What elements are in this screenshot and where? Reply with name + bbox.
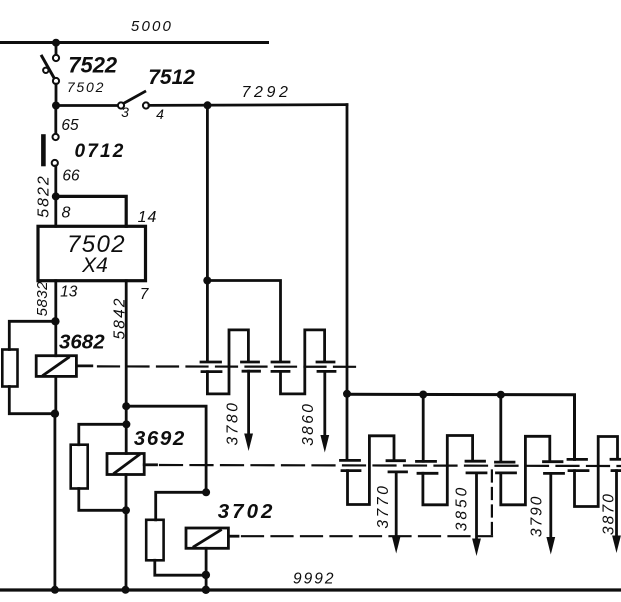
contact 3870 second upper tick — [611, 458, 621, 461]
node junction below 3702 — [202, 571, 210, 579]
wire 7522 to node — [55, 84, 58, 105]
wire branch to 3702 column — [126, 406, 206, 492]
node junction pin8/14 — [52, 192, 60, 200]
contact 3860 lower tick — [272, 370, 289, 373]
contact 3780 second upper tick — [242, 361, 259, 364]
arrow 3770 — [395, 472, 398, 538]
svg-text:5832: 5832 — [34, 281, 51, 317]
svg-text:5000: 5000 — [131, 18, 173, 35]
contact 3790 lower tick — [497, 471, 516, 474]
wire left column to bottom rail — [54, 414, 57, 590]
wire resistor to bottom node — [9, 387, 55, 414]
wire pin 13 down — [54, 281, 57, 356]
wire top supply rail 5000 — [0, 41, 268, 44]
button 0712 actuator bar — [41, 137, 46, 165]
svg-text:0712: 0712 — [74, 141, 125, 162]
mech stub 3702 — [228, 535, 238, 538]
contact 3860 upper tick — [272, 361, 289, 364]
contact 3850 lower tick — [418, 472, 437, 475]
svg-text:3682: 3682 — [59, 331, 105, 354]
svg-text:66: 66 — [62, 168, 80, 185]
wire pin 7 down — [125, 281, 128, 454]
node junction below 3692 — [122, 506, 130, 514]
resistor R-3692 — [71, 445, 88, 489]
svg-text:7502: 7502 — [67, 79, 105, 95]
svg-text:13: 13 — [60, 284, 78, 301]
svg-text:5822: 5822 — [36, 174, 53, 218]
switch 7522 roller — [43, 68, 48, 73]
node junction on 7292 — [204, 101, 212, 109]
node junction resistor branch 3682 — [51, 317, 59, 325]
contact 3790 second lower tick — [545, 472, 564, 475]
mech stub 3682 — [76, 364, 91, 367]
svg-text:3870: 3870 — [601, 492, 618, 535]
contact 3870 second lower tick — [612, 469, 621, 472]
switch 7522 blade — [42, 56, 54, 78]
node junction bus 3790 — [497, 391, 505, 399]
switch 7512 blade — [124, 92, 145, 103]
node junction branch right — [122, 402, 130, 410]
contact 3870 upper tick — [568, 458, 587, 461]
arrow 3860 — [323, 371, 326, 437]
contact 3770 second lower tick — [389, 470, 407, 473]
mech dashed riser — [491, 467, 493, 534]
wire feed 3790 — [499, 395, 502, 462]
node junction below 3682 — [51, 410, 59, 418]
button 0712 top contact — [53, 134, 59, 140]
contact 3780 meander — [207, 330, 248, 394]
contact 3770 upper tick — [341, 459, 360, 462]
contact 3870 lower tick — [569, 469, 588, 472]
wire 3702 column to bottom rail — [205, 548, 208, 590]
node junction resistor branch 3702 — [202, 488, 210, 496]
wire resistor branch left — [9, 321, 55, 349]
svg-text:3860: 3860 — [300, 402, 317, 446]
resistor R-3682 — [2, 350, 17, 387]
contact 3860 meander — [281, 330, 325, 394]
node rail right — [202, 586, 210, 594]
wire bottom rail — [0, 588, 621, 591]
node junction bus left — [343, 390, 351, 398]
contact 3860 second upper tick — [317, 361, 334, 364]
contact 3780 second lower tick — [243, 370, 260, 373]
svg-text:7512: 7512 — [148, 66, 195, 89]
svg-text:4: 4 — [156, 106, 164, 122]
contact 3860 second lower tick — [318, 370, 335, 373]
switch 7522 top contact — [53, 55, 59, 61]
contact 3770 meander — [348, 436, 395, 505]
node junction bus 3850 — [419, 391, 427, 399]
wire resistor 3702 return — [155, 560, 206, 575]
contact 3780 lower tick — [202, 370, 221, 373]
wire branch to 3860 — [207, 281, 280, 362]
contact 3850 second upper tick — [466, 460, 485, 463]
svg-text:3780: 3780 — [225, 401, 242, 446]
wire 7292 horizontal — [149, 103, 347, 107]
mech stub 3692 — [144, 463, 156, 466]
resistor R-3702 — [146, 520, 163, 561]
node rail middle — [122, 586, 130, 594]
wire resistor branch 3692 — [79, 424, 127, 444]
mech dashed row from 3692 — [160, 465, 621, 466]
svg-text:7522: 7522 — [68, 53, 118, 78]
relay coil 3692 — [107, 454, 144, 475]
wire 0712 to node 8 — [54, 166, 57, 196]
wire clutch bus — [347, 394, 575, 459]
switch 7522 bottom contact — [53, 78, 59, 84]
box 7502 X4 — [38, 226, 146, 280]
svg-text:7: 7 — [140, 286, 150, 303]
mech dashed row from 3702 — [242, 535, 492, 537]
svg-text:3: 3 — [121, 104, 129, 120]
wire vertical to contact 3780 — [206, 105, 209, 361]
relay coil 3702 — [186, 528, 228, 548]
contact 3850 upper tick — [417, 460, 436, 463]
svg-text:9992: 9992 — [293, 571, 335, 588]
svg-text:7292: 7292 — [242, 84, 292, 101]
coil 3682 diagonal — [44, 358, 69, 376]
contact 3790 upper tick — [496, 461, 515, 464]
contact 3790 second upper tick — [544, 460, 563, 463]
wire resistor 3692 return — [79, 489, 126, 511]
node rail left — [51, 586, 59, 594]
switch 7512 contact 3 — [118, 102, 124, 108]
contact 3770 lower tick — [342, 469, 360, 472]
arrow 3850 — [475, 473, 478, 541]
node branch to 3860 — [203, 277, 211, 285]
svg-text:8: 8 — [62, 205, 71, 222]
svg-text:65: 65 — [61, 117, 79, 134]
wire feed 3850 — [422, 395, 425, 462]
node on rail at switch 7522 — [52, 39, 60, 47]
arrow 3790 — [549, 473, 552, 539]
relay coil 3682 — [36, 356, 76, 377]
svg-text:3692: 3692 — [134, 427, 186, 450]
contact 3790 meander — [501, 436, 550, 505]
wire to pin 8 — [54, 196, 57, 226]
node junction — [52, 102, 60, 110]
svg-text:14: 14 — [138, 209, 158, 226]
arrow 3780 — [247, 371, 250, 436]
wire coil 3682 to node — [54, 376, 57, 413]
svg-text:3770: 3770 — [375, 483, 392, 528]
contact 3850 second lower tick — [467, 471, 486, 474]
wire branch to pin 14 — [56, 196, 126, 226]
wire 3692 column to bottom rail — [125, 475, 128, 591]
node junction resistor branch 3692 — [122, 420, 130, 428]
wire rail to switch 7522 — [55, 43, 58, 55]
svg-text:3790: 3790 — [529, 495, 546, 537]
wire resistor branch 3702 — [156, 492, 206, 520]
button 0712 bottom contact — [52, 160, 58, 166]
svg-text:X4: X4 — [81, 254, 108, 277]
svg-text:3702: 3702 — [218, 500, 276, 523]
coil 3702 diagonal — [194, 530, 221, 546]
contact 3770 second upper tick — [387, 459, 405, 462]
coil 3692 diagonal — [115, 455, 140, 473]
contact 3850 meander — [423, 436, 473, 505]
svg-text:3850: 3850 — [454, 485, 471, 531]
arrow 3870 — [615, 471, 618, 538]
contact 3780 upper tick — [201, 361, 221, 364]
switch 7512 contact 4 — [143, 102, 149, 108]
mech dashed row from 3682 — [98, 365, 359, 368]
wire node to button 0712 — [54, 106, 57, 134]
wire vertical 7292 right leg — [346, 105, 349, 460]
wire node to switch 7512 contact 3 — [56, 104, 118, 107]
contact 3870 meander — [575, 437, 618, 507]
